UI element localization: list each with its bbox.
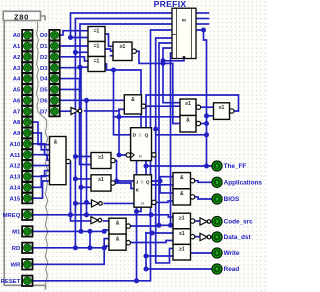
- inverter U16: [91, 217, 102, 224]
- wire bus2 PREFIX in2 down: [75, 19, 172, 53]
- svg-text:RD: RD: [12, 246, 21, 252]
- wire DFF reset to RESET line: [136, 161, 138, 281]
- wire RD wire to NANDF.in2: [32, 246, 109, 248]
- wire JK Q to ANDc2.in1: [160, 181, 173, 193]
- wire PREFIX out stub 3: [196, 23, 209, 25]
- node RD join: [73, 245, 78, 250]
- svg-text:0: 0: [216, 267, 219, 272]
- wire OR.in3 stub: [111, 55, 114, 57]
- wire A15 to address AND: [32, 181, 49, 198]
- pin A7: [13, 106, 33, 116]
- svg-text:A7: A7: [13, 109, 21, 115]
- svg-text:0: 0: [26, 87, 29, 92]
- wire PREFIX out4 trunk down: [196, 30, 207, 166]
- svg-text:&: &: [116, 220, 120, 226]
- node inv2 tap: [73, 201, 78, 206]
- pin D5: [40, 84, 60, 94]
- svg-text:≥1: ≥1: [219, 105, 225, 111]
- svg-text:0: 0: [26, 279, 29, 284]
- wire OR2 out to SR.in1: [201, 106, 214, 108]
- svg-text:Code_src: Code_src: [224, 219, 254, 226]
- wire OR col1.in2: [159, 224, 173, 226]
- node D3 branch: [79, 185, 84, 190]
- NOR gate U8: [180, 99, 201, 116]
- wire A10 to address AND: [32, 144, 49, 155]
- NOR gate U4: [113, 42, 136, 61]
- NOR gate U21: [173, 213, 195, 229]
- XOR gate U2: [88, 42, 105, 57]
- pin WR: [10, 259, 32, 269]
- wire ORc3.in2 tap: [146, 255, 173, 257]
- svg-text:K: K: [136, 187, 140, 193]
- node bundle node: [153, 127, 158, 132]
- svg-text:D3: D3: [40, 66, 48, 72]
- node M1 riser join: [88, 229, 93, 234]
- pin A5: [13, 84, 33, 94]
- NAND gate U19: [173, 173, 195, 189]
- svg-text:0: 0: [216, 197, 219, 202]
- wire D5 riser: [60, 67, 80, 89]
- wire D4 trunk to NOR1.in2: [60, 79, 91, 165]
- wire D3 trunk down to M1 line: [60, 68, 81, 232]
- inverter U25 before Data_dst: [200, 233, 211, 240]
- wire A14 to address AND: [32, 176, 49, 188]
- Z80 CPU partial outline: [3, 11, 48, 289]
- register U26 PREFIX: [172, 8, 196, 58]
- pin D0: [40, 30, 60, 40]
- svg-text:0: 0: [26, 142, 29, 147]
- svg-text:Q: Q: [146, 180, 150, 186]
- wire NOR2 out to JK K: [115, 183, 134, 189]
- node MREQ join: [68, 212, 73, 217]
- D flip-flop U13: [126, 128, 156, 161]
- svg-text:0: 0: [216, 219, 219, 224]
- wire register bottom pin to trunk: [163, 59, 184, 61]
- wire ANDc1 out to Applications: [195, 181, 212, 183]
- wire inv5 out: [211, 236, 212, 238]
- svg-text:Data_dst: Data_dst: [224, 234, 252, 241]
- wire OR out long wire to AND2.in2: [136, 51, 180, 123]
- svg-text:Write: Write: [224, 250, 240, 257]
- wire bus1 PREFIX in1 to XOR1.in2: [71, 13, 173, 38]
- svg-text:BIOS: BIOS: [224, 196, 240, 203]
- NAND gate U9: [180, 116, 201, 133]
- node PREFIX out4: [201, 28, 206, 33]
- svg-text:A8: A8: [13, 120, 21, 126]
- svg-text:A3: A3: [13, 66, 21, 72]
- svg-text:≥1: ≥1: [185, 101, 191, 107]
- node The_FF node: [204, 164, 209, 169]
- wire D0 to XOR1.in1: [60, 31, 88, 35]
- svg-text:&: &: [54, 140, 58, 146]
- wire tap NOR2.in2: [81, 186, 91, 188]
- node col1 node: [157, 223, 162, 228]
- svg-text:A14: A14: [9, 185, 21, 191]
- wire inv2 feed from trunk: [75, 202, 91, 204]
- wire RESET trunk to PREFIX in4: [32, 30, 172, 281]
- wire branch to FF D input: [114, 70, 131, 135]
- node col3 tap2: [144, 254, 149, 259]
- svg-text:0: 0: [26, 76, 29, 81]
- wire inv3 out to NANDE.in1: [104, 220, 109, 222]
- wire ORc2 out to inv5: [193, 236, 200, 238]
- node FF Q join: [204, 132, 209, 137]
- svg-text:0: 0: [26, 174, 29, 179]
- svg-text:&: &: [131, 97, 135, 103]
- wire PREFIX out stub 1: [196, 12, 209, 14]
- pin A8: [13, 117, 33, 127]
- wire tap NOR1.in1: [75, 156, 91, 158]
- svg-text:0: 0: [53, 87, 56, 92]
- wire PREFIX out stub 2: [196, 18, 209, 20]
- wire WR wire to NANDF.in1: [32, 239, 109, 265]
- wire stub XOR2.in2: [75, 51, 88, 53]
- svg-text:MREQ: MREQ: [3, 213, 21, 219]
- pin A0: [13, 30, 33, 40]
- node bus2/XOR2: [73, 50, 78, 55]
- wire SR.in2: [207, 115, 214, 117]
- svg-text:PREFIX: PREFIX: [154, 0, 187, 9]
- svg-text:A6: A6: [13, 98, 21, 104]
- svg-text:D1: D1: [40, 44, 48, 50]
- pin D6: [40, 95, 60, 105]
- svg-text:R: R: [139, 154, 143, 160]
- svg-text:0: 0: [53, 65, 56, 70]
- node SR.in2 node: [204, 113, 209, 118]
- svg-text:0: 0: [26, 163, 29, 168]
- svg-text:0: 0: [26, 98, 29, 103]
- svg-text:J: J: [136, 180, 139, 186]
- wire XOR2 out to OR.in2: [105, 49, 113, 51]
- svg-text:A1: A1: [13, 44, 21, 50]
- pin A6: [13, 95, 33, 105]
- svg-text:Z80: Z80: [14, 12, 29, 21]
- pin D4: [40, 73, 60, 83]
- svg-text:0: 0: [216, 235, 219, 240]
- wire pin feed B trunk: [159, 43, 172, 225]
- NAND gate U17: [109, 218, 131, 234]
- wire pin feed D down to col1 node: [171, 53, 173, 225]
- output LED Data_dst: [212, 232, 252, 242]
- wire long run to AND2.in1: [114, 116, 181, 118]
- wire tap NOR2.in1: [75, 178, 91, 180]
- svg-text:0: 0: [53, 44, 56, 49]
- pin A12: [9, 160, 32, 170]
- wire JK reset join: [137, 207, 142, 211]
- wire riser to FF clock: [119, 109, 125, 155]
- wire bus3 PREFIX in3 down: [80, 24, 172, 67]
- wire ORc3 out to Write: [191, 252, 212, 254]
- node M1 branch: [79, 229, 84, 234]
- svg-text:0: 0: [26, 33, 29, 38]
- svg-text:0: 0: [26, 213, 29, 218]
- output LED Code_src: [212, 216, 253, 226]
- wire ORc2.in1: [146, 232, 173, 234]
- node MREQ x86 join: [84, 212, 89, 217]
- node JK Q fan: [158, 179, 163, 184]
- node WR/RD cross join: [102, 245, 107, 250]
- node RD join2: [88, 245, 93, 250]
- svg-text:&: &: [180, 175, 184, 181]
- wire ANDc2 out to BIOS: [195, 197, 212, 199]
- pin D1: [40, 41, 60, 51]
- svg-text:Applications: Applications: [224, 180, 263, 187]
- svg-text:0: 0: [26, 262, 29, 267]
- svg-text:0: 0: [26, 229, 29, 234]
- wire inverter out to NAND.in2: [85, 109, 125, 111]
- inverter U24 before Code_src: [200, 218, 211, 225]
- wire D7 to inverter: [60, 110, 71, 112]
- node JK J node: [114, 179, 119, 184]
- svg-text:The_FF: The_FF: [224, 163, 247, 170]
- XOR gate U3: [88, 57, 105, 72]
- JK flip-flop U14: [134, 175, 156, 207]
- svg-text:A15: A15: [9, 196, 21, 202]
- wire inv4 out: [211, 221, 212, 223]
- wire D2 to XOR3.in1: [60, 57, 88, 61]
- pin D2: [40, 52, 60, 62]
- svg-text:D0: D0: [40, 33, 48, 39]
- wire NANDF out to ORc2.in2: [131, 241, 174, 243]
- NOR gate U22: [173, 229, 195, 245]
- pin D7: [40, 106, 60, 116]
- node AND2 join: [204, 121, 209, 126]
- svg-text:A9: A9: [13, 131, 21, 137]
- svg-text:RESET: RESET: [1, 279, 21, 285]
- wire FF Q to right trunk: [157, 134, 207, 136]
- pin RD: [12, 243, 33, 253]
- node DFF reset join: [134, 278, 139, 283]
- node bus3/D5: [78, 65, 83, 70]
- svg-text:=1: =1: [94, 29, 100, 35]
- svg-text:≥1: ≥1: [179, 215, 185, 221]
- node reg pin join: [161, 58, 166, 63]
- svg-text:0: 0: [53, 109, 56, 114]
- node NOR2 tap: [73, 176, 78, 181]
- pin RESET: [1, 276, 33, 286]
- svg-text:0: 0: [26, 185, 29, 190]
- wire A12 to address AND: [32, 164, 49, 166]
- wire A11 to address AND: [32, 155, 49, 161]
- node clock riser: [117, 114, 122, 119]
- svg-text:D7: D7: [40, 109, 48, 115]
- node JK reset node: [134, 209, 139, 214]
- svg-text:0: 0: [53, 33, 56, 38]
- svg-text:M1: M1: [12, 230, 21, 236]
- node bus1/XOR1 tap: [68, 35, 73, 40]
- svg-text:D: D: [133, 133, 137, 139]
- node MREQ trunk cross: [149, 212, 154, 217]
- node Read node: [144, 267, 149, 272]
- node FF D branch: [111, 68, 116, 73]
- svg-text:A11: A11: [10, 153, 21, 159]
- svg-text:≥1: ≥1: [120, 44, 126, 50]
- node M1 corner: [102, 229, 107, 234]
- pin MREQ: [3, 210, 33, 220]
- pin A14: [9, 182, 32, 192]
- wire D1 to XOR2.in1: [60, 45, 88, 47]
- svg-text:A10: A10: [9, 142, 21, 148]
- wire JK Qn to ANDc2.in2: [156, 201, 173, 202]
- wire NAND out to OR2.in2: [146, 105, 180, 107]
- output LED Write: [212, 248, 240, 258]
- svg-text:R0: R0: [182, 19, 187, 23]
- svg-text:0: 0: [216, 180, 219, 185]
- AND gate U5 (address decoder): [50, 137, 71, 185]
- svg-text:0: 0: [53, 76, 56, 81]
- output LED BIOS: [212, 194, 240, 204]
- svg-text:0: 0: [26, 109, 29, 114]
- inverter U15: [92, 200, 103, 207]
- wire JK Q to ANDc1.in1: [152, 177, 174, 181]
- wire pin feed A loop to ORc3.in1: [156, 38, 173, 263]
- wire A13 to address AND: [32, 171, 49, 177]
- node col1 node 2: [168, 223, 173, 228]
- wire bigAND out down to inv3: [71, 162, 91, 221]
- wire ORc1 out to inv4: [193, 220, 200, 222]
- svg-text:≥1: ≥1: [98, 177, 104, 183]
- wire XOR3 out to FF S input: [105, 64, 141, 128]
- svg-text:0: 0: [26, 120, 29, 125]
- wire trunk down to Read: [146, 233, 212, 269]
- svg-text:0: 0: [216, 164, 219, 169]
- wire A8 to address AND: [32, 122, 49, 145]
- XOR gate U1: [88, 27, 105, 42]
- pin A1: [13, 41, 33, 51]
- pin A3: [13, 63, 33, 73]
- NOR gate U10 (latch): [214, 103, 235, 120]
- svg-text:A0: A0: [13, 33, 21, 39]
- pin A4: [13, 73, 33, 83]
- svg-text:A5: A5: [13, 88, 21, 94]
- svg-text:&: &: [180, 191, 184, 197]
- pin D3: [40, 63, 60, 73]
- pin A13: [9, 171, 32, 181]
- svg-text:&: &: [116, 236, 120, 242]
- wire SR feedback to ANDc1.in2: [146, 95, 239, 185]
- svg-text:0: 0: [26, 65, 29, 70]
- inverter U7 on D7: [71, 107, 82, 114]
- svg-text:WR: WR: [10, 262, 21, 268]
- wire XOR1 out to OR.in1: [105, 34, 113, 46]
- svg-text:0: 0: [26, 152, 29, 157]
- svg-text:0: 0: [53, 98, 56, 103]
- wire inv2 out to JK clock: [104, 202, 134, 204]
- wire D6 to NAND.in1: [60, 99, 125, 101]
- pin A10: [9, 139, 32, 149]
- svg-text:D6: D6: [40, 98, 48, 104]
- pin A15: [9, 193, 32, 203]
- wire trunk x86 down to MREQ: [86, 100, 88, 215]
- svg-text:0: 0: [26, 131, 29, 136]
- svg-text:=1: =1: [94, 44, 100, 50]
- output LED The_FF: [212, 161, 247, 171]
- wire stub XOR3.in2: [80, 66, 88, 68]
- node NOR1 tap: [73, 154, 78, 159]
- svg-text:0: 0: [26, 196, 29, 201]
- pin A11: [10, 149, 33, 159]
- NOR gate U11: [91, 153, 115, 169]
- NAND gate U20: [173, 189, 195, 205]
- NAND gate U6: [124, 95, 146, 114]
- svg-text:0: 0: [26, 246, 29, 251]
- output LED Read: [212, 264, 239, 274]
- svg-text:A12: A12: [9, 164, 21, 170]
- svg-text:0: 0: [26, 44, 29, 49]
- wire NANDE out to col1 node: [131, 225, 160, 227]
- svg-text:A2: A2: [13, 55, 21, 61]
- wire link M1 to RD: [89, 231, 91, 247]
- wire AND2 out join: [201, 123, 207, 125]
- node D6 branch: [84, 98, 89, 103]
- svg-text:A13: A13: [9, 175, 21, 181]
- svg-text:0: 0: [216, 251, 219, 256]
- svg-text:Q: Q: [145, 133, 149, 139]
- svg-text:≥1: ≥1: [179, 247, 185, 253]
- svg-text:Read: Read: [224, 266, 240, 273]
- OR gate U23: [173, 244, 191, 260]
- svg-text:=1: =1: [94, 59, 100, 65]
- pin A9: [13, 128, 33, 138]
- node feedback tap: [144, 164, 149, 169]
- svg-text:R: R: [141, 201, 145, 207]
- svg-text:D4: D4: [40, 77, 48, 83]
- node long wire tap: [161, 61, 166, 66]
- NOR gate U12: [91, 175, 115, 191]
- node x86 trunk end: [84, 200, 89, 205]
- wire NOR1 out to JK J: [115, 161, 134, 182]
- svg-text:≥1: ≥1: [98, 155, 104, 161]
- wire pin feed C to OR2.in1: [163, 48, 180, 103]
- wire bus2 trunk down to RD line: [74, 52, 76, 248]
- wire MREQ wire to OR col1.in1: [32, 215, 173, 217]
- svg-text:&: &: [186, 118, 190, 124]
- wire A9 to address AND: [32, 133, 49, 150]
- svg-text:A4: A4: [13, 77, 21, 83]
- wire M1 wire to NANDE.in2: [32, 230, 109, 231]
- wire The_FF feed: [146, 165, 212, 167]
- node clock node: [117, 153, 122, 158]
- svg-text:D5: D5: [40, 88, 48, 94]
- svg-text:D2: D2: [40, 55, 48, 61]
- svg-text:0: 0: [26, 55, 29, 60]
- pin A2: [13, 52, 33, 62]
- node col2 node: [150, 231, 155, 236]
- output LED Applications: [212, 177, 262, 187]
- svg-text:0: 0: [53, 55, 56, 60]
- NAND gate U18: [109, 234, 131, 250]
- pin M1: [12, 226, 32, 236]
- svg-text:≥1: ≥1: [179, 231, 185, 237]
